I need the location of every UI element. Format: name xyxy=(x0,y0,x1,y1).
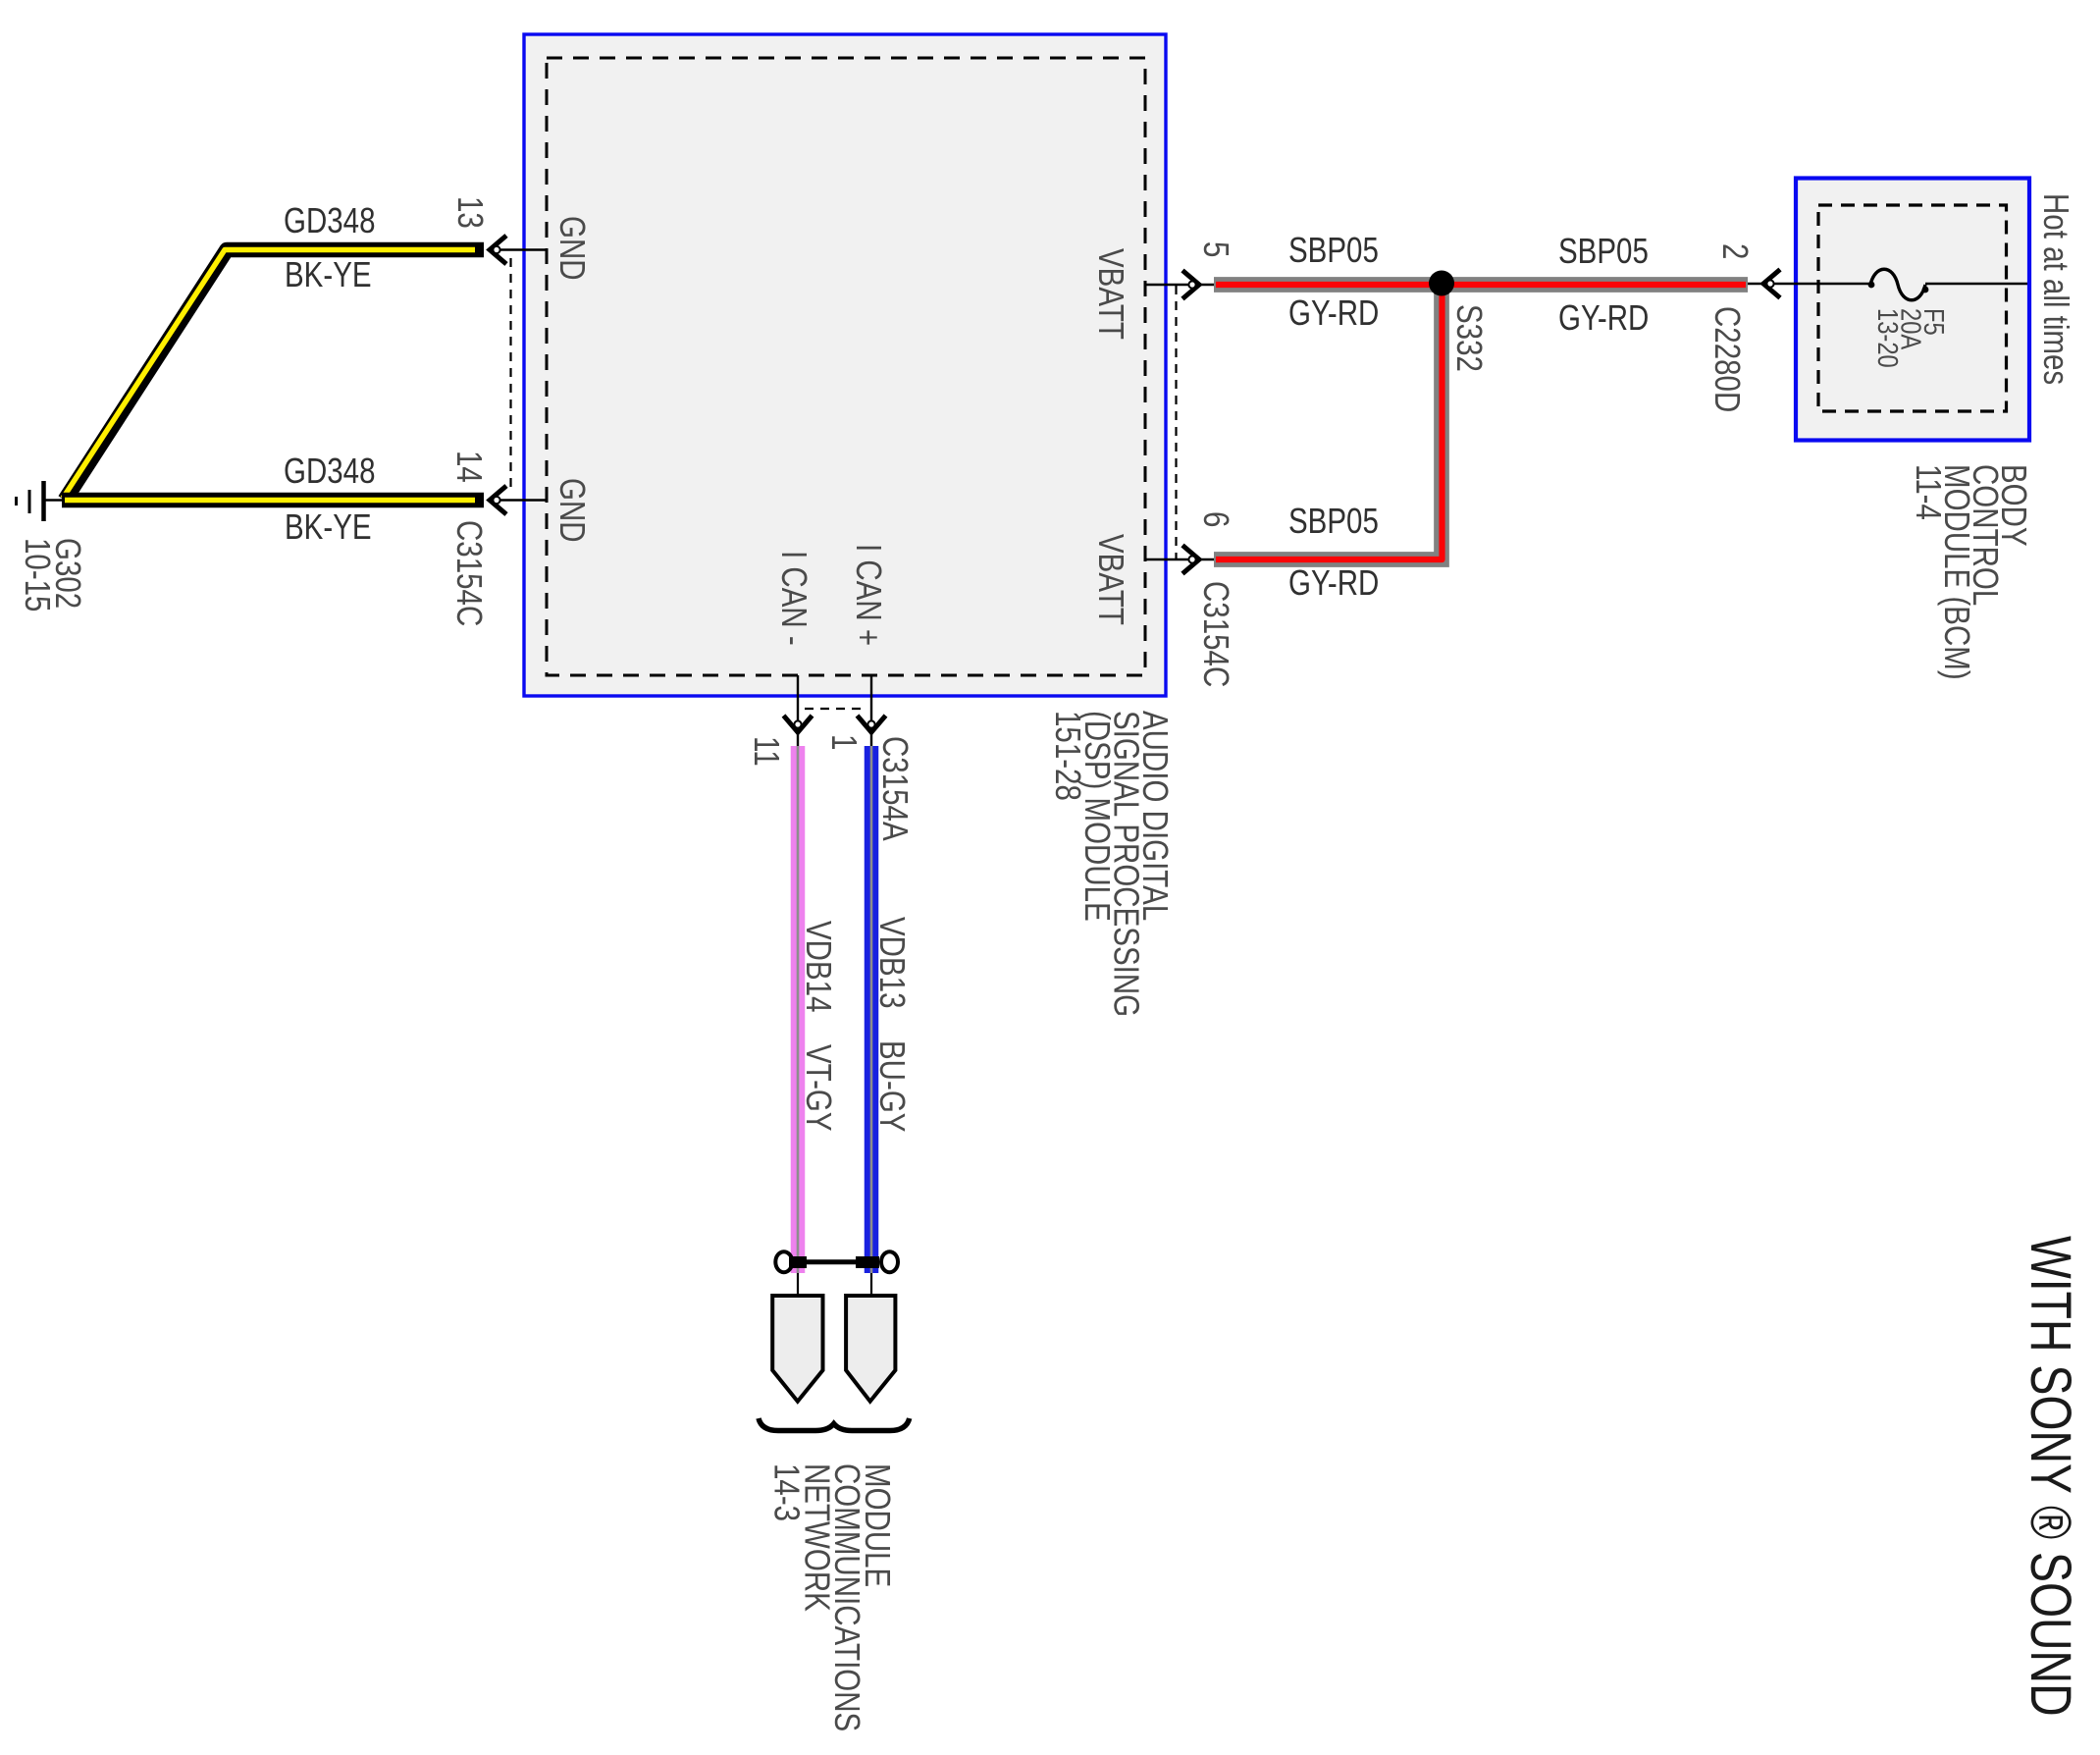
svg-text:GY-RD: GY-RD xyxy=(1288,292,1379,332)
svg-text:I CAN +: I CAN + xyxy=(849,544,888,646)
svg-text:VDB14: VDB14 xyxy=(799,921,838,1012)
svg-text:6: 6 xyxy=(1196,511,1235,527)
svg-text:GY-RD: GY-RD xyxy=(1288,562,1379,602)
off-page arrow (right) xyxy=(846,1296,895,1402)
wire SBP05 splice branch (vertical + pin6 horizontal, gray/red) xyxy=(1214,290,1442,559)
svg-text:GND: GND xyxy=(552,478,592,543)
svg-text:13-20: 13-20 xyxy=(1871,308,1904,368)
wire VDB13 (blue/gray) xyxy=(865,746,879,1273)
svg-text:10-15: 10-15 xyxy=(18,538,57,612)
pin 1 arrow xyxy=(858,716,886,732)
lead to off-page arrow (right) xyxy=(870,1273,872,1296)
svg-text:SBP05: SBP05 xyxy=(1558,231,1649,270)
svg-text:2: 2 xyxy=(1715,243,1755,259)
svg-text:C3154C: C3154C xyxy=(449,520,489,626)
wire VDB14 (violet/gray) xyxy=(791,746,806,1273)
svg-text:SBP05: SBP05 xyxy=(1288,501,1379,540)
pin 2 arrow xyxy=(1763,270,1780,298)
wire GD348 pin 14 (black/yellow) xyxy=(62,493,484,508)
svg-text:WITH SONY ® SOUND: WITH SONY ® SOUND xyxy=(2019,1236,2082,1717)
svg-text:14-3: 14-3 xyxy=(767,1463,807,1521)
wire SBP05 pin5 left segment (gray/red) xyxy=(1214,277,1443,292)
svg-text:BK-YE: BK-YE xyxy=(285,254,372,293)
connector C3154C dashed line (right) xyxy=(1175,286,1177,558)
pin 5 arrow xyxy=(1182,271,1199,299)
pin 6 arrow xyxy=(1182,546,1199,574)
DSP module name label xyxy=(1049,711,1176,1017)
pin 2 lead into BCM xyxy=(1748,283,1870,285)
ground G302 xyxy=(17,481,68,521)
svg-text:GY-RD: GY-RD xyxy=(1558,297,1649,337)
splice S332 dot xyxy=(1429,271,1454,296)
svg-text:VT-GY: VT-GY xyxy=(799,1044,838,1132)
connector C3154A dashed line xyxy=(805,708,862,710)
svg-text:VBATT: VBATT xyxy=(1091,248,1130,340)
pin 11 lead xyxy=(797,675,799,748)
pin 6 lead xyxy=(1145,558,1214,560)
fuse F5 element xyxy=(1870,269,1925,300)
wire from fuse to right edge of BCM xyxy=(1925,283,2027,285)
svg-text:151-28: 151-28 xyxy=(1049,711,1088,801)
svg-text:GND: GND xyxy=(552,216,592,281)
pin 1 lead xyxy=(870,675,872,748)
DSP module inner dashed box xyxy=(547,58,1145,675)
pin 13 lead xyxy=(488,248,547,250)
pin 13 arrow xyxy=(490,236,506,264)
svg-text:SBP05: SBP05 xyxy=(1288,230,1379,269)
BCM inner dashed box xyxy=(1818,205,2007,411)
BCM box xyxy=(1796,179,2029,441)
svg-text:C3154C: C3154C xyxy=(1196,581,1235,687)
pin 5 lead xyxy=(1145,284,1214,286)
wire GD348 pin 13 (black/yellow) xyxy=(65,250,484,501)
pin 14 lead xyxy=(488,499,547,501)
twisted pair symbol xyxy=(775,1251,898,1272)
svg-text:C3154A: C3154A xyxy=(875,736,915,841)
svg-text:5: 5 xyxy=(1196,241,1235,257)
network label xyxy=(767,1463,898,1731)
pin 14 arrow xyxy=(490,486,506,514)
svg-text:GD348: GD348 xyxy=(284,200,375,239)
svg-text:C2280D: C2280D xyxy=(1707,306,1747,412)
svg-text:GD348: GD348 xyxy=(284,451,375,490)
connector C3154C dashed line (left) xyxy=(509,258,511,493)
svg-text:S332: S332 xyxy=(1449,304,1489,372)
svg-text:13: 13 xyxy=(450,196,490,229)
svg-text:VDB13: VDB13 xyxy=(872,917,912,1008)
svg-text:I CAN -: I CAN - xyxy=(774,551,814,646)
svg-text:Hot at all times: Hot at all times xyxy=(2036,193,2075,385)
fuse label F5 20A 13-20 xyxy=(1871,308,1950,368)
wire SBP05 right segment to BCM (gray/red) xyxy=(1443,277,1748,292)
svg-text:1: 1 xyxy=(824,734,864,750)
svg-text:11: 11 xyxy=(747,736,786,767)
brace xyxy=(759,1418,910,1431)
lead to off-page arrow (left) xyxy=(797,1273,799,1296)
DSP module box xyxy=(524,34,1166,696)
BCM name label xyxy=(1909,464,2033,680)
svg-text:VBATT: VBATT xyxy=(1091,534,1130,625)
off-page arrow (left) xyxy=(772,1296,822,1402)
ground label G302 10-15 xyxy=(18,538,87,612)
svg-text:BU-GY: BU-GY xyxy=(872,1040,912,1132)
svg-text:14: 14 xyxy=(449,451,489,483)
svg-text:11-4: 11-4 xyxy=(1909,464,1948,520)
svg-text:BK-YE: BK-YE xyxy=(285,506,372,546)
pin 11 arrow xyxy=(784,716,813,732)
